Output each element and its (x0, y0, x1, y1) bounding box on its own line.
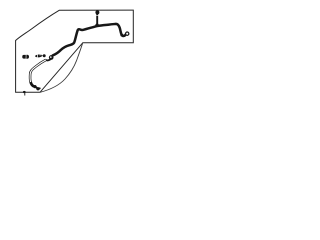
clamp CL1 (leaf) (35, 54, 42, 58)
junction fitting dot (95, 24, 99, 28)
hose H1 end elbow fitting (31, 82, 34, 86)
clip ring C1 (49, 55, 54, 60)
bolt stem (96, 14, 98, 25)
hook knot blob (120, 34, 123, 37)
pin tick below border (24, 93, 26, 96)
clamp CL1 slit (36, 54, 38, 57)
open eyelet E1 at right pipe end (126, 32, 129, 35)
hose H1 outlined tube (30, 60, 46, 86)
pipe P1 main line (53, 24, 126, 56)
pin blob on bottom border (23, 91, 26, 93)
union bolt B1 (filled dot at top) (95, 10, 99, 14)
connector dot N1 (43, 54, 46, 57)
ring tail (46, 59, 51, 60)
union U2 dark fitting (22, 55, 27, 59)
